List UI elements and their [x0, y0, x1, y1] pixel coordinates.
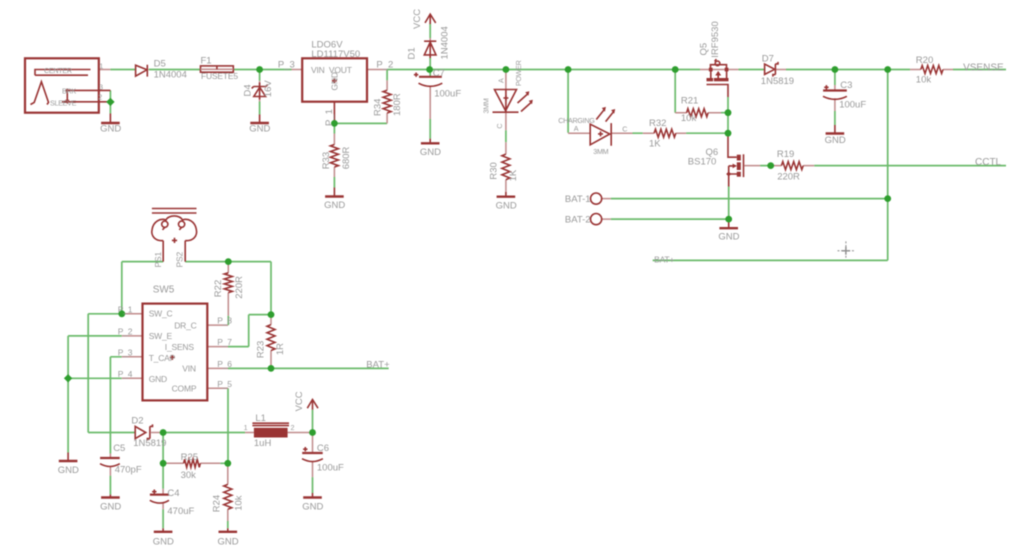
svg-text:P_7: P_7: [217, 337, 232, 347]
svg-text:GND: GND: [420, 147, 441, 158]
svg-text:P_5: P_5: [217, 379, 232, 389]
svg-text:1: 1: [99, 62, 103, 71]
svg-text:1N4004: 1N4004: [440, 26, 451, 59]
svg-text:CCTL: CCTL: [975, 157, 1002, 168]
svg-text:BRK: BRK: [62, 87, 76, 96]
svg-text:100uF: 100uF: [434, 88, 461, 99]
svg-text:220R: 220R: [777, 172, 800, 183]
svg-text:180R: 180R: [392, 93, 403, 116]
svg-text:2: 2: [98, 93, 102, 102]
svg-text:1N5819: 1N5819: [133, 438, 166, 449]
svg-text:IRF9530: IRF9530: [710, 21, 721, 57]
svg-text:L1: L1: [255, 413, 266, 424]
svg-text:BAT-2: BAT-2: [565, 215, 591, 226]
svg-text:GND: GND: [100, 124, 121, 135]
svg-text:GND: GND: [324, 200, 345, 211]
svg-text:P_1: P_1: [324, 109, 335, 126]
svg-text:R30: R30: [489, 162, 500, 179]
svg-text:SW5: SW5: [153, 285, 175, 296]
svg-text:C5: C5: [113, 443, 125, 454]
svg-text:C7: C7: [433, 68, 445, 79]
svg-text:10k: 10k: [681, 113, 697, 124]
svg-text:1K: 1K: [649, 139, 661, 150]
svg-text:Q5: Q5: [698, 43, 709, 56]
svg-text:16V: 16V: [263, 80, 274, 98]
svg-text:2: 2: [291, 423, 295, 432]
svg-text:100uF: 100uF: [839, 100, 866, 111]
svg-text:R25: R25: [181, 452, 198, 463]
svg-text:R33: R33: [321, 152, 332, 169]
svg-text:VCC: VCC: [294, 391, 305, 411]
svg-text:C4: C4: [167, 488, 179, 499]
svg-text:I_SENS: I_SENS: [165, 342, 195, 352]
svg-text:SLEEVE: SLEEVE: [50, 98, 77, 107]
svg-text:100uF: 100uF: [317, 462, 344, 473]
svg-text:SW_E: SW_E: [149, 331, 173, 341]
svg-text:GND: GND: [718, 232, 739, 243]
svg-text:SW_C: SW_C: [149, 309, 173, 319]
svg-text:3MM: 3MM: [593, 147, 608, 156]
svg-text:1N4004: 1N4004: [154, 70, 187, 81]
svg-text:GND: GND: [329, 72, 339, 90]
svg-text:R22: R22: [213, 280, 224, 297]
svg-text:F1: F1: [201, 56, 212, 67]
svg-text:GND: GND: [302, 502, 323, 513]
svg-text:C6: C6: [317, 443, 329, 454]
svg-text:PS1: PS1: [153, 252, 163, 268]
svg-text:C: C: [495, 124, 504, 129]
svg-text:680R: 680R: [341, 146, 352, 169]
svg-text:10k: 10k: [234, 495, 245, 511]
svg-text:VSENSE: VSENSE: [963, 63, 1004, 74]
svg-text:1N5819: 1N5819: [761, 76, 794, 87]
svg-text:3MM: 3MM: [482, 98, 491, 113]
svg-text:LD1117V50: LD1117V50: [311, 49, 360, 60]
svg-text:P_3: P_3: [278, 60, 295, 71]
svg-text:R20: R20: [916, 55, 933, 66]
svg-text:VCC: VCC: [412, 9, 423, 29]
svg-text:R19: R19: [777, 149, 794, 160]
svg-text:VIN: VIN: [182, 364, 196, 374]
svg-text:D5: D5: [154, 59, 166, 70]
svg-text:POWER: POWER: [514, 60, 523, 86]
svg-text:P_4: P_4: [118, 369, 133, 379]
svg-text:R23: R23: [256, 341, 267, 358]
svg-text:P_8: P_8: [217, 316, 232, 326]
svg-text:BAT-1: BAT-1: [565, 194, 591, 205]
svg-text:CENTER: CENTER: [44, 66, 72, 75]
svg-text:D7: D7: [762, 54, 774, 65]
svg-text:GND: GND: [496, 200, 517, 211]
svg-text:1: 1: [244, 423, 248, 432]
svg-text:P_1: P_1: [118, 304, 133, 314]
svg-text:R34: R34: [372, 99, 383, 116]
svg-text:GND: GND: [249, 124, 270, 135]
svg-text:A: A: [496, 78, 505, 83]
svg-text:R24: R24: [212, 495, 223, 512]
svg-text:BAT+: BAT+: [366, 359, 390, 370]
svg-text:30k: 30k: [181, 470, 197, 481]
svg-text:3: 3: [99, 83, 103, 92]
svg-text:A: A: [574, 124, 579, 133]
svg-text:470uF: 470uF: [167, 506, 194, 517]
svg-text:GND: GND: [153, 537, 174, 548]
svg-text:P_6: P_6: [217, 359, 232, 369]
svg-text:PS2: PS2: [175, 252, 185, 268]
svg-text:R21: R21: [681, 96, 698, 107]
svg-text:470pF: 470pF: [115, 464, 142, 475]
svg-text:COMP: COMP: [172, 384, 197, 394]
svg-text:D2: D2: [131, 416, 143, 427]
svg-text:GND: GND: [825, 135, 846, 146]
svg-text:10k: 10k: [916, 75, 932, 86]
svg-text:C3: C3: [840, 80, 852, 91]
svg-text:D1: D1: [407, 47, 418, 59]
svg-text:P_2: P_2: [376, 60, 393, 71]
svg-text:P_3: P_3: [118, 347, 133, 357]
svg-text:T_CAP: T_CAP: [149, 353, 176, 363]
svg-text:R32: R32: [649, 118, 666, 129]
svg-text:1R: 1R: [275, 343, 286, 355]
svg-text:DR_C: DR_C: [174, 321, 196, 331]
svg-text:C: C: [622, 124, 627, 133]
svg-text:GND: GND: [149, 374, 167, 384]
svg-text:BAT+: BAT+: [654, 254, 674, 264]
svg-text:GND: GND: [58, 465, 79, 476]
svg-text:BS170: BS170: [688, 157, 717, 168]
svg-text:FUSETE5: FUSETE5: [201, 71, 238, 81]
svg-text:GND: GND: [218, 537, 239, 548]
svg-text:1K: 1K: [508, 169, 519, 181]
svg-text:220R: 220R: [234, 276, 245, 299]
svg-text:GND: GND: [100, 502, 121, 513]
svg-text:D4: D4: [243, 84, 254, 96]
svg-text:1uH: 1uH: [254, 438, 272, 449]
svg-text:P_2: P_2: [118, 326, 133, 336]
